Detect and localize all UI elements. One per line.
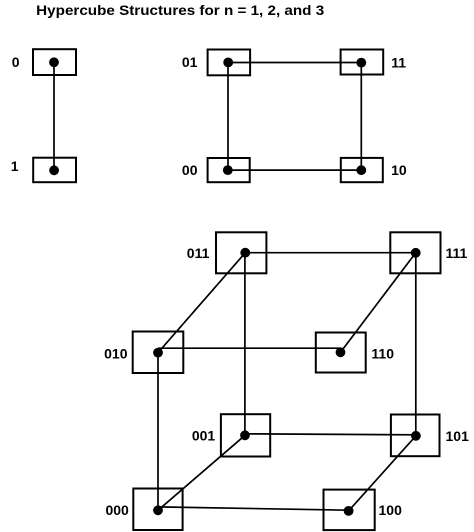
svg-text:1: 1 (11, 158, 19, 174)
svg-text:11: 11 (391, 54, 406, 70)
node 010 box (133, 332, 184, 374)
svg-text:010: 010 (104, 345, 128, 361)
wire 11-10 (360, 63, 362, 171)
svg-text:101: 101 (446, 428, 470, 444)
svg-text:001: 001 (192, 428, 216, 444)
node 101 dot (411, 431, 421, 441)
wire 011-010 (158, 253, 245, 353)
node 010 dot (153, 348, 163, 358)
svg-text:00: 00 (182, 162, 198, 178)
node 011 box (216, 232, 266, 273)
node 01 box (208, 50, 251, 76)
node 0 dot (49, 57, 59, 67)
node 10 dot (356, 165, 366, 175)
node 111 dot (411, 248, 421, 258)
wire 010-110 (158, 347, 341, 349)
node 000 box (133, 489, 182, 531)
node 11 dot (356, 58, 366, 68)
wire 001-000 (158, 435, 245, 510)
wire 111-110 (341, 253, 416, 352)
node 011 dot (240, 248, 250, 258)
node 00 box (208, 158, 250, 182)
node 100 dot (344, 506, 354, 516)
wire 111-101 (415, 253, 417, 436)
node 00 dot (223, 165, 233, 175)
wire 000-100 (158, 507, 349, 510)
node 01 dot (223, 58, 233, 68)
wire 0-1 (53, 62, 55, 170)
svg-text:110: 110 (371, 345, 394, 361)
node 001 dot (240, 430, 250, 440)
node 0 box (33, 49, 76, 75)
node 001 box (221, 414, 270, 456)
node 000 dot (153, 505, 163, 515)
node 100 box (324, 490, 375, 530)
svg-text:011: 011 (187, 245, 210, 261)
wire 010-000 (157, 353, 159, 511)
svg-text:000: 000 (105, 502, 129, 518)
svg-text:01: 01 (182, 54, 198, 70)
node 10 box (341, 158, 383, 182)
wire 01-00 (227, 62, 229, 170)
node 101 box (391, 415, 440, 457)
node 1 dot (49, 165, 59, 175)
svg-text:Hypercube Structures for n = 1: Hypercube Structures for n = 1, 2, and 3 (36, 2, 324, 18)
node 110 dot (336, 347, 346, 357)
svg-text:111: 111 (446, 245, 468, 261)
node 1 box (33, 158, 76, 183)
node 11 box (341, 50, 384, 75)
svg-text:100: 100 (379, 502, 403, 518)
svg-text:10: 10 (391, 162, 407, 178)
wire 00-10 (228, 169, 361, 171)
wire 001-101 (245, 434, 416, 435)
wire 011-111 (245, 252, 415, 254)
node 111 box (390, 232, 440, 273)
svg-text:0: 0 (12, 54, 20, 70)
wire 101-100 (349, 436, 416, 511)
wire 01-11 (228, 62, 361, 64)
wire 011-001 (244, 253, 246, 436)
node 110 box (316, 333, 366, 373)
